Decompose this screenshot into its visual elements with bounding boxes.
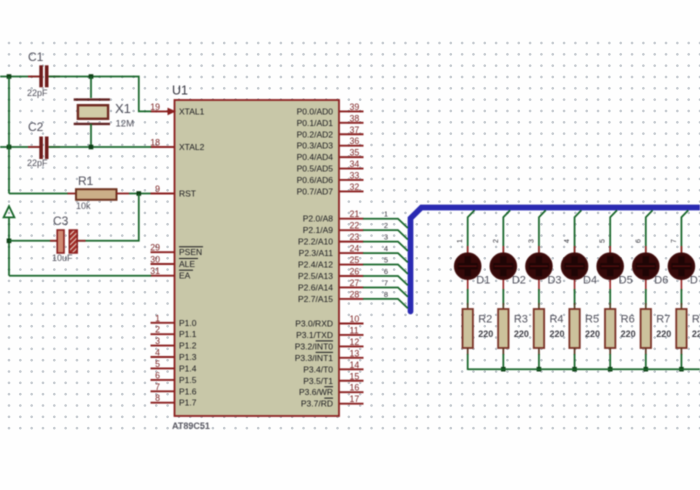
pin 29 PSEN (150, 243, 203, 258)
svg-text:19: 19 (150, 102, 160, 112)
svg-text:3: 3 (155, 336, 160, 346)
svg-text:22pF: 22pF (27, 88, 48, 98)
label C3 (53, 214, 69, 228)
label D5 (619, 275, 633, 287)
junction crystal bottom (89, 145, 94, 150)
svg-text:D4: D4 (583, 275, 597, 287)
svg-text:X1: X1 (115, 101, 131, 116)
pin 3 P1.2 (151, 336, 197, 351)
junction rail D7 (679, 367, 684, 372)
svg-text:P0.0/AD0: P0.0/AD0 (297, 106, 334, 116)
wire C1 to XTAL1 (49, 77, 151, 112)
LED D1 (455, 246, 481, 291)
svg-text:D3: D3 (547, 275, 561, 287)
svg-text:4: 4 (155, 348, 160, 358)
svg-text:R3: R3 (514, 314, 528, 326)
pin 2 P1.1 (151, 325, 197, 340)
svg-text:6: 6 (635, 239, 642, 243)
svg-text:220: 220 (478, 329, 493, 339)
label 12M (116, 119, 135, 130)
LED D7 (668, 246, 694, 291)
pin 30 ALE (150, 255, 198, 270)
label 22pF C1 (27, 88, 48, 98)
svg-text:P1.2: P1.2 (179, 341, 197, 351)
svg-text:R8: R8 (692, 314, 700, 326)
svg-text:28: 28 (350, 289, 360, 299)
pin 12 P3.2/INT0 (295, 337, 364, 352)
pin 38 P0.1/AD1 (297, 113, 364, 128)
svg-text:220: 220 (514, 329, 529, 339)
pin 10 P3.0/RXD (295, 314, 363, 329)
pin 14 P3.4/T0 (303, 360, 363, 375)
label D3 (547, 275, 561, 287)
svg-text:P3.4/T0: P3.4/T0 (303, 364, 333, 374)
svg-text:220: 220 (656, 329, 671, 339)
label X1 (115, 101, 131, 116)
svg-text:26: 26 (350, 267, 360, 277)
svg-text:P2.2/A10: P2.2/A10 (298, 237, 333, 247)
pin 26 P2.5/A13 (298, 267, 363, 282)
net label 1 (457, 239, 464, 243)
wire D3 to R4 (538, 289, 540, 305)
wire P2.6 to bus, net 7 (363, 278, 408, 296)
svg-text:39: 39 (350, 102, 360, 112)
svg-text:C1: C1 (28, 50, 44, 64)
net label 2 (493, 239, 500, 243)
svg-text:9: 9 (155, 184, 160, 194)
wire R3 to rail (502, 354, 504, 370)
net label 3 (528, 239, 535, 243)
IC U1 AT89C51 microcontroller body (175, 100, 340, 416)
svg-text:P2.0/A8: P2.0/A8 (303, 214, 334, 224)
junction RST (137, 191, 142, 196)
label R6 (621, 314, 635, 326)
svg-text:27: 27 (350, 278, 360, 288)
wire bus to D7 (681, 210, 688, 253)
svg-text:P2.6/A14: P2.6/A14 (298, 282, 333, 292)
svg-text:P2.5/A13: P2.5/A13 (298, 271, 333, 281)
svg-text:D7: D7 (690, 275, 700, 287)
wire P2.4 to bus, net 5 (363, 256, 408, 274)
label 220 R8 (692, 329, 700, 339)
svg-text:P2.1/A9: P2.1/A9 (303, 225, 334, 235)
label AT89C51 (172, 421, 210, 431)
svg-text:7: 7 (155, 382, 160, 392)
power terminal (4, 206, 15, 276)
svg-text:220: 220 (621, 329, 636, 339)
svg-text:8: 8 (155, 393, 160, 403)
svg-text:16: 16 (350, 383, 360, 393)
svg-text:EA: EA (179, 271, 191, 281)
svg-text:P1.1: P1.1 (179, 329, 197, 339)
svg-text:U1: U1 (172, 84, 188, 98)
pin 27 P2.6/A14 (298, 278, 363, 293)
wire R2 to rail (467, 354, 469, 370)
wire crystal bottom (90, 124, 92, 147)
svg-text:RST: RST (179, 189, 196, 199)
svg-text:29: 29 (150, 243, 160, 253)
wire RST to C3 (78, 194, 139, 241)
wire ground to EA (9, 275, 151, 277)
wire bus to D4 (575, 210, 582, 253)
svg-text:R7: R7 (656, 314, 670, 326)
net label 4 (564, 239, 571, 243)
svg-text:P0.5/AD5: P0.5/AD5 (297, 164, 334, 174)
pin 7 P1.6 (151, 382, 197, 397)
svg-text:D2: D2 (512, 275, 526, 287)
label 22pF C2 (27, 158, 48, 168)
wire P2.3 to bus, net 4 (363, 244, 408, 262)
svg-text:P3.7/RD: P3.7/RD (301, 399, 333, 409)
XTAL1 pin arrow (168, 108, 177, 116)
wire bus to D5 (610, 210, 617, 253)
net label 5 (600, 239, 607, 243)
LED D3 (526, 246, 552, 291)
wire C2 left rail (0, 146, 40, 148)
pin 35 P0.4/AD4 (297, 148, 364, 163)
svg-text:10k: 10k (76, 201, 91, 211)
net label 6 (635, 239, 642, 243)
pin 36 P0.3/AD3 (297, 136, 364, 151)
svg-text:ALE: ALE (179, 259, 195, 269)
pin 24 P2.3/A11 (299, 244, 364, 258)
svg-text:30: 30 (150, 255, 160, 265)
svg-text:36: 36 (350, 136, 360, 146)
pin 4 P1.3 (151, 348, 197, 363)
resistor R8 (676, 303, 686, 355)
svg-text:XTAL1: XTAL1 (179, 106, 205, 116)
svg-text:AT89C51: AT89C51 (172, 421, 210, 431)
svg-text:220: 220 (585, 329, 600, 339)
svg-text:5: 5 (600, 239, 607, 243)
svg-text:P3.1/TXD: P3.1/TXD (296, 330, 333, 340)
pin 13 P3.3/INT1 (295, 348, 364, 363)
wire left rail (8, 77, 10, 194)
resistor R6 (605, 303, 615, 355)
wire D5 to R6 (609, 289, 611, 305)
svg-text:P0.3/AD3: P0.3/AD3 (297, 141, 334, 151)
pin 1 P1.0 (151, 313, 197, 328)
capacitor C1 (28, 65, 60, 87)
pin 9 RST (151, 184, 197, 199)
svg-text:22: 22 (350, 221, 360, 231)
pin 19 XTAL1 (150, 102, 204, 117)
resistor R4 (534, 303, 544, 355)
junction rail D4 (572, 367, 577, 372)
svg-text:P3.6/WR: P3.6/WR (299, 387, 333, 397)
svg-text:12: 12 (350, 337, 360, 347)
junction crystal top (89, 74, 94, 79)
svg-text:23: 23 (350, 232, 360, 242)
pin 16 P3.6/WR (299, 383, 364, 398)
wire bus to D2 (503, 210, 510, 253)
label U1 (172, 84, 188, 98)
svg-text:P0.1/AD1: P0.1/AD1 (297, 118, 334, 128)
svg-text:31: 31 (150, 266, 160, 276)
svg-text:32: 32 (350, 182, 360, 192)
pin 22 P2.1/A9 (303, 221, 364, 236)
svg-text:P2.7/A15: P2.7/A15 (298, 294, 333, 304)
svg-text:2: 2 (384, 221, 388, 230)
label R2 (478, 314, 492, 326)
label 220 R4 (549, 329, 564, 339)
label 220 R2 (478, 329, 493, 339)
junction rail D2 (501, 367, 506, 372)
crystal X1 (74, 100, 110, 124)
wire P2.0 to bus, net 1 (363, 210, 408, 228)
wire crystal top (90, 77, 92, 99)
svg-text:3: 3 (384, 233, 388, 242)
svg-text:21: 21 (350, 209, 360, 219)
pin 31 EA (150, 266, 193, 281)
wire R6 to rail (609, 354, 611, 370)
net label 7 (671, 239, 678, 243)
wire R5 to rail (574, 354, 576, 370)
svg-text:3: 3 (528, 239, 535, 243)
svg-text:18: 18 (150, 138, 160, 148)
resistor R7 (641, 303, 651, 355)
wire P2.2 to bus, net 3 (363, 233, 408, 251)
bus P2 (411, 208, 700, 312)
svg-text:7: 7 (671, 239, 678, 243)
wire bus to D6 (646, 210, 653, 253)
svg-text:37: 37 (350, 125, 360, 135)
junction rail D6 (644, 367, 649, 372)
pin 6 P1.5 (151, 370, 197, 385)
LED D4 (561, 246, 587, 291)
junction left C2 (7, 145, 12, 150)
svg-text:35: 35 (350, 148, 360, 158)
svg-text:2: 2 (493, 239, 500, 243)
svg-text:25: 25 (350, 255, 360, 265)
svg-text:P0.4/AD4: P0.4/AD4 (297, 152, 334, 162)
pin 34 P0.5/AD5 (297, 159, 364, 174)
label D7 (690, 275, 700, 287)
label D2 (512, 275, 526, 287)
svg-text:5: 5 (384, 256, 388, 265)
pin 28 P2.7/A15 (298, 289, 363, 304)
svg-text:17: 17 (350, 394, 360, 404)
label R7 (656, 314, 670, 326)
svg-text:P1.5: P1.5 (179, 375, 197, 385)
wire D7 to R8 (680, 289, 682, 305)
svg-text:22pF: 22pF (27, 158, 48, 168)
wire bus to D3 (539, 210, 546, 253)
svg-text:P1.4: P1.4 (179, 363, 197, 373)
capacitor C3 (50, 230, 86, 253)
resistor R2 (463, 303, 473, 355)
svg-text:P2.3/A11: P2.3/A11 (299, 248, 334, 258)
pin 17 P3.7/RD (301, 394, 364, 409)
svg-text:7: 7 (384, 278, 388, 287)
svg-text:12M: 12M (116, 119, 135, 130)
LED D6 (633, 246, 659, 291)
svg-text:D5: D5 (619, 275, 633, 287)
LED D2 (490, 246, 516, 291)
svg-text:4: 4 (384, 244, 388, 253)
pin 37 P0.2/AD2 (297, 125, 364, 140)
svg-text:P0.6/AD6: P0.6/AD6 (297, 175, 334, 185)
wire C2 to XTAL2 (49, 146, 151, 148)
svg-text:P3.2/INT0: P3.2/INT0 (295, 341, 334, 351)
svg-text:XTAL2: XTAL2 (179, 142, 205, 152)
label C1 (28, 50, 44, 64)
svg-text:D6: D6 (654, 275, 668, 287)
svg-text:15: 15 (350, 371, 360, 381)
pin 18 XTAL2 (150, 138, 204, 153)
svg-text:R4: R4 (549, 314, 563, 326)
label D4 (583, 275, 597, 287)
svg-text:2: 2 (155, 325, 160, 335)
junction left C1 (7, 74, 12, 79)
svg-text:P1.0: P1.0 (179, 318, 197, 328)
junction rail D5 (608, 367, 613, 372)
label R5 (585, 314, 599, 326)
svg-text:P1.3: P1.3 (179, 352, 197, 362)
svg-text:R6: R6 (621, 314, 635, 326)
svg-text:10uF: 10uF (52, 253, 73, 263)
svg-text:R2: R2 (478, 314, 492, 326)
pin 5 P1.4 (151, 359, 197, 374)
svg-text:R5: R5 (585, 314, 599, 326)
wire bus to D1 (468, 210, 475, 253)
wire D6 to R7 (645, 289, 647, 305)
label 10uF (52, 253, 73, 263)
pin 15 P3.5/T1 (303, 371, 363, 386)
wire D1 to R2 (467, 289, 469, 305)
svg-text:P2.4/A12: P2.4/A12 (298, 260, 333, 270)
label R3 (514, 314, 528, 326)
svg-text:11: 11 (350, 325, 359, 335)
label C2 (28, 120, 44, 134)
pin 39 P0.0/AD0 (297, 102, 364, 117)
label D1 (476, 275, 490, 287)
svg-text:8: 8 (384, 290, 388, 299)
svg-text:24: 24 (350, 244, 360, 254)
svg-text:D1: D1 (476, 275, 490, 287)
pin 11 P3.1/TXD (296, 325, 363, 340)
svg-text:PSEN: PSEN (179, 247, 202, 257)
svg-text:P3.0/RXD: P3.0/RXD (295, 319, 333, 329)
label R8 (692, 314, 700, 326)
wire P2.5 to bus, net 6 (363, 267, 408, 285)
pin 32 P0.7/AD7 (297, 182, 364, 197)
svg-text:C3: C3 (53, 214, 69, 228)
svg-text:33: 33 (350, 170, 360, 180)
svg-text:6: 6 (155, 370, 160, 380)
wire P2.7 to bus, net 8 (363, 290, 408, 308)
wire C1 top rail (0, 76, 40, 78)
svg-text:1: 1 (155, 313, 160, 323)
svg-text:220: 220 (549, 329, 564, 339)
svg-text:4: 4 (564, 239, 571, 243)
svg-text:13: 13 (350, 348, 360, 358)
label 10k (76, 201, 91, 211)
pin 21 P2.0/A8 (303, 209, 364, 224)
svg-text:14: 14 (350, 360, 360, 370)
svg-text:220: 220 (692, 329, 700, 339)
wire D4 to R5 (574, 289, 576, 305)
resistor R3 (498, 303, 508, 355)
label 220 R6 (621, 329, 636, 339)
pin 23 P2.2/A10 (298, 232, 363, 247)
label 220 R3 (514, 329, 529, 339)
junction C3 left (7, 239, 12, 244)
label R1 (78, 174, 94, 188)
LED D5 (597, 246, 623, 291)
wire C3 left (9, 240, 58, 242)
label R4 (549, 314, 563, 326)
label 220 R7 (656, 329, 671, 339)
svg-text:P1.6: P1.6 (179, 386, 197, 396)
wire D2 to R3 (502, 289, 504, 305)
svg-text:10: 10 (350, 314, 360, 324)
svg-text:5: 5 (155, 359, 160, 369)
pin 33 P0.6/AD6 (297, 170, 364, 185)
resistor R1 (68, 189, 151, 200)
svg-text:P3.3/INT1: P3.3/INT1 (295, 353, 334, 363)
svg-text:38: 38 (350, 113, 360, 123)
svg-text:P1.7: P1.7 (179, 398, 197, 408)
wire R1 left (9, 193, 68, 195)
wire R8 to rail (680, 354, 682, 370)
wire P2.1 to bus, net 2 (363, 221, 408, 239)
svg-text:R1: R1 (78, 174, 94, 188)
svg-text:6: 6 (384, 267, 388, 276)
svg-text:P0.7/AD7: P0.7/AD7 (297, 186, 334, 196)
pin 8 P1.7 (151, 393, 197, 408)
svg-text:1: 1 (384, 210, 388, 219)
svg-text:34: 34 (350, 159, 360, 169)
svg-text:C2: C2 (28, 120, 44, 134)
svg-text:P3.5/T1: P3.5/T1 (303, 376, 333, 386)
pin 25 P2.4/A12 (298, 255, 363, 270)
junction rail D3 (537, 367, 542, 372)
label D6 (654, 275, 668, 287)
wire R4 to rail (538, 354, 540, 370)
wire R7 to rail (645, 354, 647, 370)
capacitor C2 (28, 137, 60, 160)
svg-text:1: 1 (457, 239, 464, 243)
wire ground rail (468, 368, 700, 370)
label 220 R5 (585, 329, 600, 339)
svg-text:P0.2/AD2: P0.2/AD2 (297, 129, 334, 139)
resistor R5 (569, 303, 579, 355)
